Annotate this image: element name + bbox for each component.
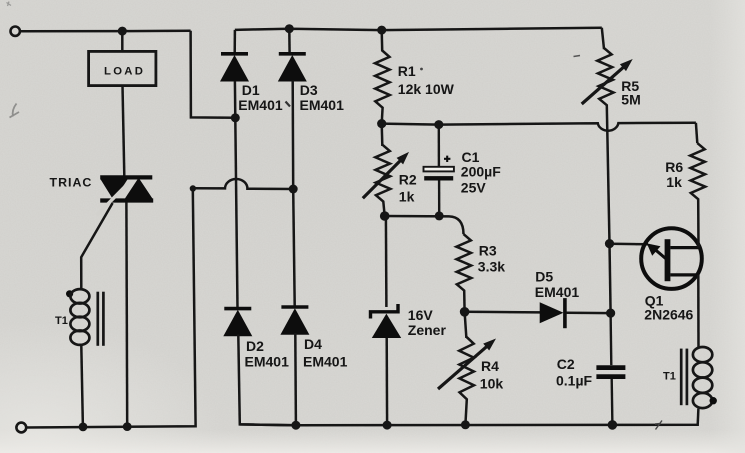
svg-text:16V: 16V (408, 307, 434, 323)
svg-text:R2: R2 (399, 172, 417, 188)
node T1 bottom (79, 423, 88, 432)
node AC input 2 (289, 185, 298, 194)
wire D3 branch (288, 29, 291, 54)
svg-text:T1: T1 (663, 371, 676, 383)
node D4 bottom (291, 421, 300, 430)
transistor Q1 UJT 2N2646 (641, 228, 702, 289)
node R2 bottom (380, 211, 390, 221)
wire triac gate (81, 203, 112, 290)
artifact tick after EM401 (286, 102, 291, 107)
svg-text:C2: C2 (557, 356, 575, 372)
node C1 top (434, 120, 443, 129)
svg-text:EM401: EM401 (245, 354, 290, 370)
wire LOAD drop (121, 31, 124, 51)
transformer T1 core left (98, 292, 104, 346)
load box LOAD (89, 51, 156, 85)
svg-text:EM401: EM401 (300, 97, 345, 113)
wire D5 to emitter column (567, 311, 611, 314)
terminal bottom-left (16, 423, 26, 433)
wire T1 winding bottom (81, 345, 83, 427)
resistor R4 variable (459, 312, 474, 425)
artifact pencil mark left edge (10, 104, 20, 118)
resistor R1 (375, 30, 390, 124)
svg-text:TRIAC: TRIAC (50, 176, 93, 190)
node AC input 1 (231, 113, 240, 122)
node zener bottom (383, 421, 392, 430)
svg-text:0.1µF: 0.1µF (556, 373, 593, 389)
node C2 bottom (608, 420, 618, 430)
resistor R6 (690, 143, 705, 248)
wire C2 column (610, 244, 611, 314)
resistor R5 variable (597, 28, 613, 244)
svg-text:R6: R6 (665, 159, 683, 175)
node R1 top (377, 26, 386, 35)
svg-text:LOAD: LOAD (104, 65, 145, 77)
wire B1 to T1 secondary (697, 275, 700, 347)
diode D4 (280, 307, 309, 335)
svg-text:3.3k: 3.3k (478, 259, 505, 275)
svg-text:EM401: EM401 (238, 97, 283, 113)
wire top rail left segment (20, 29, 191, 32)
wire R6 branch corner (696, 123, 697, 143)
svg-text:25V: 25V (461, 180, 487, 196)
svg-text:Zener: Zener (408, 322, 447, 338)
zener diode 16V (371, 304, 402, 338)
artifact speck near R5 (574, 56, 581, 57)
node junction LOAD tap (118, 27, 127, 36)
terminal top-left (11, 27, 20, 36)
svg-text:EM401: EM401 (303, 354, 348, 370)
artifact dot right of R1 (420, 68, 423, 71)
wire zener to bottom rail (385, 338, 388, 425)
node corner blob (190, 185, 196, 191)
transformer T1 secondary dot (710, 397, 717, 404)
svg-text:D3: D3 (300, 82, 318, 98)
inductor T1 output winding (693, 347, 712, 408)
triac symbol (97, 177, 154, 215)
wire AC mid rail with hop over D1-D2 (193, 179, 293, 189)
svg-text:R1: R1 (398, 63, 416, 79)
wire zener branch (385, 216, 388, 307)
artifact speck top-left (7, 2, 12, 7)
wire LOAD to triac (123, 86, 125, 176)
transformer T1 core right (681, 349, 687, 406)
resistor R3 (456, 234, 471, 312)
diode D1 (220, 54, 249, 82)
svg-text:EM401: EM401 (535, 284, 580, 300)
svg-text:12k 10W: 12k 10W (398, 81, 455, 97)
resistor R2 variable (375, 124, 390, 216)
svg-text:R3: R3 (479, 243, 497, 259)
node R3 bottom (460, 307, 470, 317)
inductor T1 gate winding (70, 289, 89, 345)
wire emitter lead (610, 243, 649, 246)
capacitor C1 (424, 125, 454, 216)
wire D1 branch (233, 30, 236, 54)
wire zener rail to R3 (385, 216, 464, 234)
node C1 bottom (435, 211, 444, 220)
wire bottom rail left segment (26, 188, 195, 427)
diode D3 (278, 54, 307, 82)
svg-text:2N2646: 2N2646 (644, 307, 693, 323)
svg-text:200µF: 200µF (461, 164, 501, 180)
wire DC mid rail with under-hop at R5 column (382, 123, 696, 131)
svg-text:T1: T1 (55, 315, 68, 327)
wire D2 to bottom rail (238, 335, 296, 426)
svg-text:D4: D4 (304, 336, 322, 352)
wire D1-D2 link (235, 81, 238, 308)
svg-text:D2: D2 (246, 338, 264, 354)
capacitor C2 (596, 313, 625, 425)
node R1 bottom (377, 119, 386, 128)
svg-text:D1: D1 (242, 82, 260, 98)
transformer T1 primary dot (66, 290, 73, 297)
node R4 bottom (461, 420, 470, 429)
svg-text:1k: 1k (399, 189, 415, 205)
svg-text:5M: 5M (621, 92, 640, 108)
artifact scratch on bottom rail (655, 421, 662, 430)
svg-text:1k: 1k (666, 174, 682, 190)
wire D3-D4 link (293, 81, 295, 306)
wire bottom rail right segment (240, 409, 699, 426)
node D5 cathode junction (606, 309, 615, 318)
node Q1 emitter (605, 239, 614, 248)
node D3 top (285, 24, 294, 33)
wire top rail right segment (235, 28, 602, 30)
wire D4 to bottom rail (294, 333, 297, 425)
node triac bottom (123, 422, 132, 431)
diode D2 (223, 309, 252, 337)
wire from terminal column to node (191, 31, 236, 118)
diode D5 (540, 298, 565, 328)
svg-text:10k: 10k (480, 376, 504, 392)
wire R3 node to D5 (465, 311, 541, 314)
svg-text:R4: R4 (481, 358, 499, 374)
svg-text:D5: D5 (535, 269, 553, 285)
wire triac anode down (125, 202, 128, 426)
